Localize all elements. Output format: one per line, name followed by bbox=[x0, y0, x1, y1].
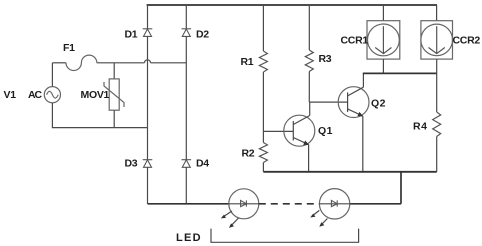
svg-text:D3: D3 bbox=[125, 158, 138, 170]
svg-text:CCR2: CCR2 bbox=[453, 34, 481, 46]
wire: Q1 collector riser bbox=[309, 102, 311, 115]
wire: MOV top lead bbox=[113, 63, 115, 79]
wire: leg2 bottom to LED row bbox=[185, 167, 187, 204]
resistor R4 bbox=[433, 112, 441, 137]
svg-text:V1: V1 bbox=[4, 89, 17, 101]
wire: R4 bottom lead bbox=[436, 137, 438, 172]
wire: hop to D2 leg bbox=[151, 62, 187, 64]
wire: AC loop bottom rail bbox=[52, 127, 147, 129]
wire: node to Q2 base bbox=[309, 101, 347, 103]
svg-text:MOV1: MOV1 bbox=[81, 89, 110, 101]
svg-text:R3: R3 bbox=[319, 53, 332, 65]
svg-text:R1: R1 bbox=[241, 56, 254, 68]
wire: LED2 to return riser bbox=[350, 203, 401, 205]
svg-text:D4: D4 bbox=[196, 158, 209, 170]
wire: AC source bottom vertical bbox=[51, 103, 53, 128]
svg-text:D1: D1 bbox=[125, 29, 138, 41]
resistor R1 bbox=[259, 51, 267, 72]
svg-text:AC: AC bbox=[28, 89, 42, 101]
wire: leg1 bottom to LED row corner bbox=[147, 167, 149, 204]
current regulator CCR1 bbox=[367, 21, 400, 59]
LED group bracket bbox=[211, 229, 359, 243]
wire: LED return riser bbox=[400, 172, 402, 204]
diode D3 bbox=[143, 160, 153, 168]
voltage source V1 (AC circle with sine) bbox=[44, 87, 60, 103]
wire: R3 top lead bbox=[308, 5, 310, 50]
wire: top rail (bridge + output) bbox=[147, 4, 437, 6]
wire: node to Q1 base bbox=[263, 130, 293, 132]
wire: bridge leg2 top bbox=[185, 5, 187, 29]
wire: fuse to MOV junction to hop bbox=[97, 62, 145, 64]
wire: bottom emitter rail bbox=[263, 171, 436, 173]
svg-text:R4: R4 bbox=[413, 121, 428, 133]
diode D4 bbox=[182, 160, 192, 168]
wire: CCR1 bottom lead bbox=[382, 59, 384, 73]
wire: R1 top lead bbox=[262, 5, 264, 51]
wire: Q2 emitter to bottom rail bbox=[362, 116, 364, 172]
svg-text:CCR1: CCR1 bbox=[341, 34, 369, 46]
LED LED2 bbox=[310, 189, 350, 227]
varistor MOV1 bbox=[104, 79, 124, 110]
wire: CCR2 bottom lead bbox=[436, 59, 438, 73]
wire hop over bridge leg bbox=[145, 60, 151, 63]
current regulator CCR2 bbox=[421, 21, 453, 59]
svg-text:F1: F1 bbox=[63, 42, 75, 54]
wire: Q2 collector riser bbox=[362, 73, 364, 87]
wire: top-left horizontal to fuse bbox=[52, 62, 66, 64]
transistor Q1 bbox=[284, 115, 315, 146]
wire: leg1 mid (D1 to AC tap) bbox=[147, 36, 149, 127]
LED LED1 bbox=[221, 189, 259, 228]
wire: top rail corner to CCR2 bbox=[436, 5, 438, 21]
wire: MOV bottom lead bbox=[113, 110, 115, 127]
resistor R2 bbox=[259, 143, 267, 163]
wire: CCR1 top lead bbox=[382, 5, 384, 21]
wire: dashed LED string continuation bbox=[259, 203, 320, 205]
wire: R1 bottom to Q1 base node bbox=[262, 72, 264, 143]
svg-text:LED: LED bbox=[176, 232, 202, 244]
diode D1 bbox=[143, 29, 153, 37]
svg-text:D2: D2 bbox=[196, 29, 209, 41]
transistor Q2 bbox=[338, 87, 369, 118]
wire: Q1 emitter to bottom rail bbox=[308, 145, 310, 172]
wire: CCR collector bus bbox=[363, 72, 437, 74]
wire: bridge leg1 top bbox=[147, 5, 149, 29]
wire: AC source top vertical bbox=[51, 63, 53, 87]
svg-text:Q2: Q2 bbox=[371, 98, 386, 110]
wire: R2 bottom lead bbox=[262, 163, 264, 172]
fuse F1 bbox=[66, 55, 97, 70]
wire: R4 top lead bbox=[436, 73, 438, 112]
wire: bridge negative to LED1 bbox=[148, 203, 229, 205]
wire: R3 bottom to T node bbox=[308, 72, 310, 103]
wire: leg1 (AC tap to D3) bbox=[147, 128, 149, 160]
resistor R3 bbox=[305, 50, 313, 71]
svg-text:R2: R2 bbox=[242, 148, 255, 160]
diode D2 bbox=[182, 29, 192, 37]
wire: leg2 mid (D2 to D4) bbox=[185, 36, 187, 159]
svg-text:Q1: Q1 bbox=[318, 125, 333, 137]
